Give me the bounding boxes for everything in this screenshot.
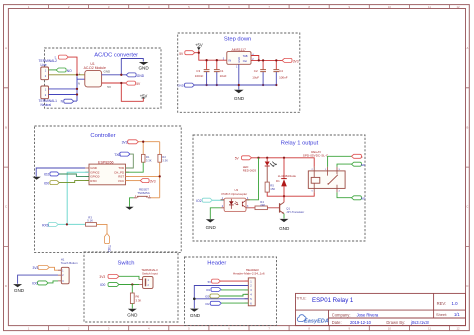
ground symbol controller (32, 177, 40, 180)
svg-text:AC/DC converter: AC/DC converter (94, 52, 138, 58)
terminal J1 TERMINAL1 Neutral (39, 86, 58, 107)
port IO0 header (205, 294, 220, 299)
svg-text:Relay 1 output: Relay 1 output (281, 140, 319, 146)
wire 3V3 to touch pin1 (49, 267, 58, 270)
resistor R3 5.1K (86, 215, 97, 226)
ground symbol top (138, 62, 149, 71)
svg-text:IO0: IO0 (205, 295, 210, 299)
junction C4 top (275, 59, 277, 61)
junction node L (76, 74, 78, 76)
port RXD header (206, 288, 221, 293)
junction RST (159, 175, 161, 177)
junction GND (120, 74, 122, 76)
wire RXD net cyan bottom (58, 223, 85, 225)
terminal J3 TERMINAL3 Switch Input (139, 268, 158, 288)
svg-text:5V: 5V (107, 85, 111, 89)
svg-text:C: C (466, 205, 468, 209)
wire R1 to CH_PD (126, 162, 144, 172)
svg-text:Controller: Controller (90, 133, 115, 139)
power symbol +5V (140, 93, 148, 98)
svg-text:IO1: IO1 (206, 288, 211, 292)
svg-text:Jose Rivera: Jose Rivera (357, 312, 379, 317)
wire regulator GND pin down (238, 64, 240, 89)
svg-text:Live: Live (41, 63, 47, 67)
svg-text:RXD: RXD (90, 179, 97, 183)
svg-text:IO2: IO2 (196, 199, 201, 203)
title block texts (296, 296, 460, 325)
svg-text:11: 11 (428, 5, 431, 9)
port NO (56, 68, 72, 73)
group titles (90, 36, 318, 266)
ground symbol Q1 (279, 219, 290, 231)
svg-text:3.3K: 3.3K (146, 158, 152, 162)
wire IO2 port to GPIO0 pin (59, 174, 89, 176)
svg-text:10uF: 10uF (220, 74, 227, 78)
svg-text:GND: GND (14, 288, 25, 293)
svg-text:GND: GND (178, 83, 184, 87)
wire GPIO2 cyan net (67, 172, 89, 224)
svg-text:ESP01 Relay 1: ESP01 Relay 1 (312, 297, 354, 304)
svg-text:GND: GND (190, 313, 201, 318)
group box Step down (178, 33, 300, 112)
port 3V3 touch (33, 265, 50, 270)
terminal J2 TERMINAL2 Live (39, 59, 58, 79)
svg-text:3V3: 3V3 (99, 275, 105, 279)
wire 3V3 to terminal pin1 (119, 276, 139, 279)
svg-text:ESP8266: ESP8266 (98, 160, 114, 164)
wire IO2 to opto anode (212, 199, 224, 201)
group box AC/DC converter (45, 48, 162, 108)
svg-text:D: D (5, 284, 7, 288)
junction RXD net (66, 223, 68, 225)
svg-text:NO: NO (67, 69, 72, 73)
svg-text:GND: GND (127, 313, 138, 318)
wire GND rail (194, 84, 276, 86)
svg-text:C2: C2 (254, 69, 258, 73)
capacitor C1 10uF (214, 60, 227, 85)
svg-text:Switch Input: Switch Input (142, 272, 158, 276)
wire +5V stem (198, 50, 200, 53)
wire 5V rail relay (252, 158, 315, 167)
ground symbol header (190, 309, 201, 318)
EasyEDA logo (297, 315, 329, 325)
junction 5V (120, 82, 122, 84)
svg-text:150: 150 (270, 187, 275, 191)
resistor R1 3.3K (142, 154, 152, 162)
ground symbol switch (127, 309, 138, 318)
wire module GND to port (102, 74, 127, 76)
svg-text:D: D (466, 284, 468, 288)
port 3V3 switch (99, 274, 119, 279)
diode D1 LL4148 (276, 158, 296, 196)
port TXD header (205, 301, 221, 306)
svg-text:10: 10 (388, 327, 392, 331)
group box Controller (35, 126, 182, 252)
capacitor C4 100nF (273, 60, 287, 85)
title block (296, 293, 466, 325)
wire IO0 to terminal pin2 (119, 284, 139, 286)
wire relay COM to port (328, 156, 352, 167)
wire GND net pin5 (194, 298, 248, 300)
svg-text:12: 12 (456, 5, 460, 9)
svg-text:j0s3.r1v3r: j0s3.r1v3r (410, 320, 430, 325)
wire R2 to RST and reset switch (126, 162, 160, 198)
group box Relay 1 output (193, 135, 365, 241)
svg-text:TXD: TXD (107, 245, 111, 252)
junction rail-opto (257, 157, 259, 159)
svg-text:B: B (5, 125, 7, 129)
wire TXD to pin6 (221, 302, 248, 304)
svg-text:IO0: IO0 (100, 283, 105, 287)
svg-text:5V: 5V (208, 280, 211, 284)
wire module 5V to port (102, 82, 126, 84)
wire 5V down to +5V symbol (121, 83, 143, 101)
svg-text:IO0: IO0 (44, 181, 49, 185)
wire relay NC to port (337, 164, 352, 167)
svg-text:GND: GND (138, 66, 149, 71)
junction C3 top (205, 59, 207, 61)
wire emitter to ground (283, 214, 285, 219)
wire out rail (251, 59, 282, 61)
port 3V3 VCC (140, 179, 155, 184)
wire GND net pin2 (194, 286, 248, 309)
group box Switch (84, 252, 178, 322)
capacitor C2 10uF (252, 60, 266, 85)
svg-text:GND: GND (137, 74, 145, 78)
port IO0 touch (32, 281, 48, 286)
svg-text:240: 240 (260, 203, 265, 207)
svg-text:GND: GND (237, 57, 241, 63)
svg-text:Sheet:: Sheet: (436, 312, 447, 317)
touch sensor H1 Touch Button (58, 257, 78, 283)
resistor R4 240 (255, 200, 267, 210)
frame row ticks left and right (4, 88, 470, 247)
svg-text:1.0: 1.0 (452, 301, 459, 306)
svg-text:IO0: IO0 (32, 282, 37, 286)
wire module GND up to GND symbol (121, 59, 143, 75)
wire 3V3 rail to pullups (138, 142, 159, 155)
wire IO0 port to RXD pin (59, 181, 89, 183)
port 5V (126, 81, 141, 86)
LED LED1 RED 0603 (243, 158, 277, 182)
op-amp U1 AC-D2 Module (78, 62, 111, 89)
svg-text:REV:: REV: (437, 301, 447, 306)
port TXD top (114, 152, 130, 157)
capacitor C3 100nF (195, 60, 210, 85)
port 5V input (179, 51, 195, 56)
ground symbol opto (206, 219, 217, 230)
wire opto collector to 5V (246, 158, 259, 200)
svg-text:C: C (361, 155, 363, 159)
wire VCC to 3V3 (126, 180, 141, 182)
junction C2 bottom (262, 84, 264, 86)
junction TAB-out (258, 59, 260, 61)
svg-text:GND: GND (279, 226, 290, 231)
svg-text:+5V: +5V (195, 43, 203, 48)
port L (55, 55, 69, 60)
svg-text:RED 0603: RED 0603 (243, 168, 257, 172)
port RXD bottom (42, 223, 58, 228)
svg-text:NO: NO (361, 197, 366, 201)
svg-text:IO2: IO2 (44, 173, 49, 177)
junction 3V3 rail (142, 141, 144, 143)
svg-text:SPD-05VDC-SL-C: SPD-05VDC-SL-C (303, 153, 329, 157)
IC U2 ESP8266 (85, 160, 129, 185)
svg-text:IN: IN (229, 58, 232, 62)
wire junction to R6 (131, 285, 133, 294)
svg-text:LL4148-Diode: LL4148-Diode (278, 174, 297, 178)
wire L port to node (68, 57, 77, 75)
svg-text:NC: NC (361, 163, 366, 167)
wire terminal2 pin2 to module L (Live row) (49, 74, 85, 76)
junction C1 bottom (216, 84, 218, 86)
resistor R2 3.3K (158, 154, 168, 162)
port N (61, 99, 77, 103)
junction C3 bottom (205, 84, 207, 86)
svg-text:J3Y-Transistor: J3Y-Transistor (286, 210, 304, 214)
junction GND pin (238, 84, 240, 86)
power symbol +5V (195, 43, 203, 51)
junction rail-D1 (283, 157, 285, 159)
ground symbol reset (125, 207, 133, 210)
svg-text:3.3K: 3.3K (162, 158, 168, 162)
module group boxes (35, 33, 366, 326)
wire reset to ground (130, 198, 134, 207)
junction C2 top (262, 59, 264, 61)
wire R4 to base (267, 207, 279, 209)
svg-text:1/1: 1/1 (454, 312, 460, 317)
svg-text:3V3: 3V3 (122, 141, 128, 145)
group box Header (185, 257, 277, 326)
svg-text:Company:: Company: (332, 312, 351, 317)
port 3V3 output (282, 58, 299, 63)
wire N column (49, 76, 85, 101)
port GND (126, 73, 145, 78)
svg-text:Date:: Date: (332, 320, 342, 325)
port 5V header (208, 279, 221, 284)
junction rail-LED (266, 157, 268, 159)
resistor R6 3.3K (130, 293, 141, 304)
junction C1 top (216, 59, 218, 61)
port IO2 left (44, 172, 59, 177)
ground symbol step down (234, 90, 245, 101)
port 3V3 top (122, 140, 139, 145)
svg-text:Switch: Switch (117, 260, 134, 266)
svg-text:C1: C1 (220, 69, 224, 73)
svg-text:Step down: Step down (224, 36, 251, 42)
svg-text:2019-12-10: 2019-12-10 (350, 320, 372, 325)
wire TXD port to pin (126, 154, 134, 168)
svg-text:C3: C3 (196, 69, 200, 73)
svg-text:IO2: IO2 (205, 302, 210, 306)
svg-text:3V3: 3V3 (150, 179, 156, 183)
svg-text:Touch Button: Touch Button (61, 261, 78, 265)
junction N t1p2 (76, 93, 78, 95)
junction GND header (193, 298, 196, 301)
svg-text:AMS1117: AMS1117 (232, 48, 246, 52)
port NC (352, 162, 366, 167)
junction C4 bottom (275, 84, 277, 86)
svg-text:5.1K: 5.1K (87, 219, 93, 223)
relay K1 SPD-05VDC-SL-C (303, 150, 345, 192)
svg-text:EasyEDA: EasyEDA (304, 319, 329, 325)
wire IO0 to pin4 (220, 294, 248, 296)
wire touch pin2 to ground (18, 275, 58, 284)
port TXD bottom vertical (105, 233, 112, 252)
svg-text:100nF: 100nF (279, 76, 288, 80)
wire opto cathode to ground (210, 208, 220, 219)
svg-text:RXD: RXD (42, 223, 50, 227)
wire R6 to ground (131, 304, 133, 309)
svg-text:10: 10 (388, 5, 392, 9)
port IO0 left (44, 181, 59, 186)
junction N t1p1 (76, 88, 78, 90)
frame row letters (5, 46, 468, 288)
port COM (352, 154, 363, 159)
svg-text:10uF: 10uF (252, 76, 259, 80)
svg-text:Neutral: Neutral (41, 103, 52, 107)
wire R5 to collector node (267, 192, 314, 196)
svg-text:L: L (55, 56, 57, 60)
svg-text:VCC: VCC (118, 179, 125, 183)
svg-text:TITLE:: TITLE: (296, 296, 306, 300)
svg-text:PC817-Optocoupler: PC817-Optocoupler (222, 192, 248, 196)
junction collector node (283, 195, 285, 197)
wire TAB to out rail (251, 56, 259, 61)
svg-text:A: A (466, 46, 468, 50)
wire opto emitter to R4 (250, 207, 256, 209)
port NO (352, 196, 366, 201)
wire terminal2 pin1 to NO (49, 69, 57, 71)
svg-text:Header-Male-2.54_1x6: Header-Male-2.54_1x6 (233, 271, 265, 275)
svg-text:Drawn By:: Drawn By: (386, 320, 405, 325)
svg-text:3V3: 3V3 (33, 266, 39, 270)
svg-text:100nF: 100nF (195, 74, 204, 78)
svg-text:Out: Out (243, 59, 247, 63)
junction IO0-R6 (131, 283, 133, 285)
port 5V relay (235, 156, 252, 161)
svg-text:3V3: 3V3 (293, 60, 299, 64)
svg-text:12: 12 (456, 327, 460, 331)
wire R3 to TXD port (97, 224, 108, 233)
wire relay NO to port (337, 192, 352, 197)
svg-text:TAB: TAB (243, 54, 248, 58)
wire RXD to pin3 (221, 289, 248, 291)
wire reset to R2 column (151, 197, 160, 199)
svg-text:TXD: TXD (114, 153, 121, 157)
junction +5V (198, 52, 200, 54)
transistor Q1 J3Y NPN (280, 196, 305, 214)
connector P1 Header-Male-2.54_1x6 (233, 268, 265, 306)
svg-text:GND: GND (234, 96, 245, 101)
svg-text:+5V: +5V (140, 93, 148, 98)
svg-text:B: B (466, 125, 468, 129)
wire 5V rail input (195, 53, 227, 61)
optocoupler U3 PC817 (221, 188, 250, 212)
svg-text:3.3K: 3.3K (136, 299, 142, 303)
resistor R5 150 (265, 182, 275, 192)
svg-text:GND: GND (206, 225, 217, 230)
port IO2 relay input (196, 198, 212, 203)
ground symbol touch (13, 284, 25, 293)
regulator U2 AMS1117 (223, 48, 255, 68)
svg-text:C4: C4 (279, 69, 283, 73)
svg-text:A: A (5, 46, 7, 50)
svg-text:C: C (5, 205, 7, 209)
pushbutton S1 RESET TS0625A (134, 187, 151, 197)
port IO0 switch (100, 283, 119, 288)
svg-text:GND: GND (104, 69, 112, 73)
wire 5V to pin1 (220, 280, 248, 282)
wire GND pin to ground (36, 168, 85, 177)
port GND (178, 83, 195, 87)
svg-text:11: 11 (428, 327, 431, 331)
svg-text:Header: Header (207, 260, 226, 266)
svg-text:N: N (78, 81, 80, 85)
wire IO0 to touch pin3 (48, 281, 58, 283)
svg-text:D1: D1 (276, 179, 280, 183)
